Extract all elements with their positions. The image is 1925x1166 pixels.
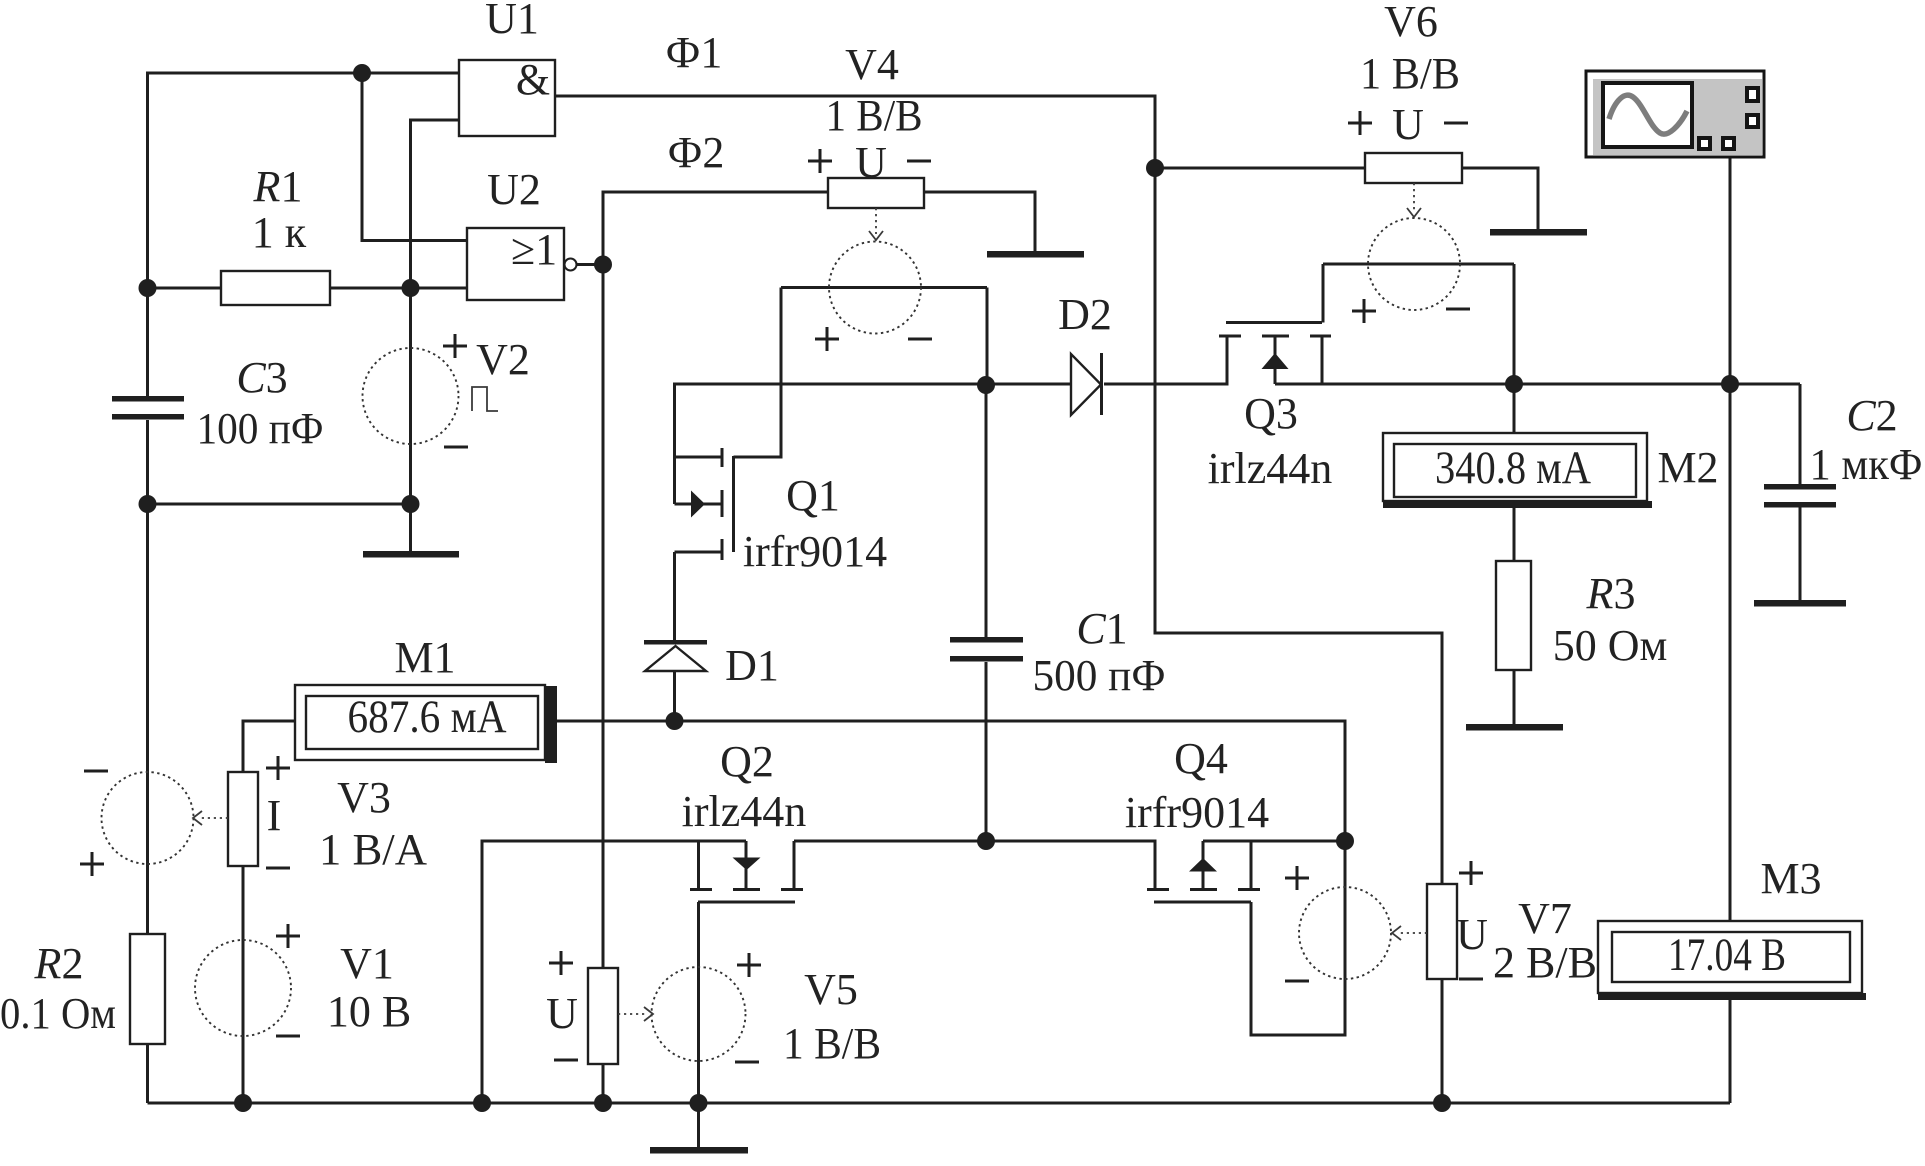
V4 voltage sense box bbox=[828, 178, 924, 240]
oscilloscope bbox=[1586, 71, 1764, 157]
ground right of V6 bbox=[1490, 229, 1587, 236]
wire R3 to ground bbox=[1513, 670, 1516, 725]
svg-text:17.04 В: 17.04 В bbox=[1668, 929, 1786, 981]
wire U2 output node up to Ф2 wire into V4 box bbox=[603, 192, 828, 265]
wire bottom ground rail bbox=[148, 1102, 1731, 1105]
svg-text:R3: R3 bbox=[1586, 569, 1636, 618]
node Q4 right / V7 top bbox=[1336, 832, 1354, 850]
node left rail / R1 bbox=[139, 279, 157, 297]
ground under R3 bbox=[1466, 724, 1563, 731]
node at U1 input 1 branch bbox=[353, 64, 371, 82]
svg-text:R2: R2 bbox=[34, 939, 84, 988]
svg-text:М2: М2 bbox=[1657, 443, 1718, 492]
transistor Q1 (irfr9014 PMOS) bbox=[675, 448, 734, 560]
wire V6 left lead from Ф1 node bbox=[1155, 167, 1365, 170]
wire Q4 body/drain side to V7 node bbox=[1203, 840, 1345, 843]
wire U1 output Ф1 net across top bbox=[555, 96, 1442, 884]
wire C1 top lead bbox=[985, 385, 988, 637]
node ground rail / V7 box column bbox=[1433, 1094, 1451, 1112]
node ground rail / Q2 rail riser bbox=[473, 1094, 491, 1112]
svg-text:I: I bbox=[267, 791, 282, 840]
node ground rail / U2 output vertical bbox=[594, 1094, 612, 1112]
wire Q2 gate through V5 source to ground rail bbox=[697, 902, 700, 1103]
wire output node down to M2 bbox=[1513, 384, 1516, 433]
wire oscilloscope probe down to output wire bbox=[1729, 157, 1732, 384]
svg-text:1 В/А: 1 В/А bbox=[319, 825, 427, 874]
wire left rail C3 to V3 to R2 bbox=[146, 420, 149, 934]
wire V7 sense box bottom to ground rail bbox=[1441, 979, 1444, 1103]
svg-text:irlz44n: irlz44n bbox=[1208, 444, 1333, 493]
svg-text:M1: M1 bbox=[394, 633, 455, 682]
svg-text:U: U bbox=[546, 989, 578, 1038]
logic gate U1 (AND) bbox=[459, 55, 555, 136]
ammeter M2 bbox=[1383, 433, 1652, 508]
svg-text:Ф2: Ф2 bbox=[668, 128, 725, 177]
svg-text:U: U bbox=[1392, 100, 1424, 149]
svg-text:687.6 мА: 687.6 мА bbox=[348, 691, 507, 743]
resistor R2 bbox=[130, 934, 165, 1044]
source V1 (10 V battery) bbox=[195, 924, 300, 1036]
diode D2 bbox=[1071, 353, 1102, 415]
V3 current sense box bbox=[193, 756, 290, 868]
wire V6 right terminal down to output wire bbox=[1513, 264, 1516, 384]
plus/minus of V5 circle bbox=[735, 953, 761, 1062]
svg-text:irfr9014: irfr9014 bbox=[743, 527, 887, 576]
wire top-left rail to U1 input 1 bbox=[148, 73, 460, 396]
node output / M2 top bbox=[1505, 375, 1523, 393]
node output / oscilloscope / M3 bbox=[1721, 375, 1739, 393]
svg-text:500 пФ: 500 пФ bbox=[1033, 651, 1166, 700]
wire R1 right lead to U2 input 2 bbox=[330, 287, 467, 290]
svg-text:M3: M3 bbox=[1760, 854, 1821, 903]
wire V7 source chord to Q4 gate L bbox=[1251, 841, 1345, 1035]
wire C2 top lead bbox=[1799, 384, 1802, 484]
source V5 (voltage-controlled source in Q2 gate) bbox=[652, 967, 746, 1061]
svg-text:2 В/В: 2 В/В bbox=[1493, 938, 1597, 987]
V6 voltage sense box bbox=[1365, 153, 1462, 217]
svg-text:V3: V3 bbox=[337, 773, 391, 822]
svg-text:Ф1: Ф1 bbox=[666, 28, 723, 77]
svg-text:Q2: Q2 bbox=[720, 737, 774, 786]
node D1 / M1 wire bbox=[666, 712, 684, 730]
svg-text:C3: C3 bbox=[236, 353, 287, 402]
wire V6 left terminal down to Q3 gate bbox=[1322, 264, 1325, 323]
wire U2 output bubble to node bbox=[577, 263, 603, 266]
svg-text:1 В/В: 1 В/В bbox=[826, 91, 923, 140]
wire output node down to M3 bbox=[1729, 384, 1732, 921]
svg-text:C1: C1 bbox=[1076, 604, 1127, 653]
source V3 (current-controlled voltage source circle) bbox=[80, 771, 194, 876]
node C3 bottom left bbox=[139, 495, 157, 513]
wire Q1 source to D1 anode top bbox=[673, 552, 676, 640]
svg-text:50 Ом: 50 Ом bbox=[1553, 621, 1668, 670]
wire M1 left lead to V3 sense box bbox=[243, 721, 295, 772]
node ground rail / V5 ground bbox=[690, 1094, 708, 1112]
svg-text:U: U bbox=[1456, 910, 1488, 959]
svg-text:U2: U2 bbox=[487, 165, 541, 214]
ground below rail at V5 bbox=[650, 1147, 748, 1154]
node V2 minus bbox=[402, 495, 420, 513]
transistor Q3 (irlz44n NMOS) bbox=[1219, 323, 1331, 385]
svg-text:R1: R1 bbox=[253, 162, 303, 211]
svg-text:V6: V6 bbox=[1384, 0, 1438, 46]
ground right of V4 bbox=[987, 251, 1084, 258]
svg-text:1 В/В: 1 В/В bbox=[783, 1019, 881, 1068]
wire Q1 drain rail top bbox=[675, 384, 1072, 504]
wire V6 source chord bbox=[1323, 263, 1514, 266]
transistor Q2 (irlz44n NMOS) bbox=[690, 841, 803, 902]
svg-text:C2: C2 bbox=[1846, 391, 1897, 440]
wire left rail R2 bottom to ground rail corner bbox=[146, 1044, 149, 1103]
wire V4 box right lead to ground bbox=[924, 192, 1035, 252]
logic gate U2 (NOR) with output bubble bbox=[467, 225, 577, 300]
svg-text:1 В/В: 1 В/В bbox=[1360, 49, 1460, 98]
svg-text:irlz44n: irlz44n bbox=[682, 787, 807, 836]
ammeter M1 bbox=[295, 685, 557, 763]
voltmeter M3 bbox=[1598, 921, 1866, 1000]
wire V2 branch through source circle to ground bbox=[409, 288, 412, 552]
V7 voltage sense box bbox=[1392, 861, 1483, 979]
svg-text:Q1: Q1 bbox=[786, 471, 840, 520]
svg-text:Q4: Q4 bbox=[1174, 734, 1228, 783]
svg-text:340.8 мА: 340.8 мА bbox=[1435, 442, 1591, 494]
node C1 bottom / Q2-Q4 wire bbox=[977, 832, 995, 850]
wire V4 source chord bbox=[781, 286, 987, 289]
wire V4 left terminal down to Q1 gate lead bbox=[734, 288, 782, 458]
wire Q3 body/drain side to output node bbox=[1275, 383, 1800, 386]
svg-text:U1: U1 bbox=[485, 0, 539, 43]
wire C3 bottom to V2 bottom node bbox=[148, 503, 411, 506]
ground under V2 bbox=[363, 551, 459, 558]
diode D1 bbox=[644, 640, 707, 671]
svg-text:1 к: 1 к bbox=[252, 208, 307, 257]
resistor R1 bbox=[221, 271, 330, 305]
source V6 (voltage-controlled source) bbox=[1352, 218, 1470, 323]
resistor R3 bbox=[1496, 561, 1531, 670]
node R1 / U1 in2 / V2 bbox=[402, 279, 420, 297]
svg-text:irfr9014: irfr9014 bbox=[1125, 788, 1269, 837]
svg-text:U: U bbox=[855, 138, 887, 187]
wire M1 right lead across to Q4/V7 node bbox=[557, 721, 1345, 841]
wire M3 bottom to ground rail bbox=[1729, 1000, 1732, 1103]
svg-text:&: & bbox=[516, 55, 550, 104]
node Ф1 / V6 left bbox=[1146, 159, 1164, 177]
svg-text:10 В: 10 В bbox=[327, 987, 411, 1036]
svg-text:D2: D2 bbox=[1058, 290, 1112, 339]
node U2 output bbox=[594, 256, 612, 274]
capacitor C1 bbox=[950, 637, 1023, 662]
svg-text:0.1 Ом: 0.1 Ом bbox=[0, 989, 116, 1038]
wire ground stub below rail at V5 bbox=[697, 1103, 700, 1147]
wire C1 bottom lead bbox=[985, 662, 988, 841]
svg-text:1 мкФ: 1 мкФ bbox=[1810, 440, 1923, 489]
svg-text:V4: V4 bbox=[845, 40, 899, 89]
ground under C2 bbox=[1754, 600, 1846, 607]
wire node A drop to U2 input 1 bbox=[362, 73, 467, 241]
svg-text:Q3: Q3 bbox=[1244, 389, 1298, 438]
wire M2 to R3 bbox=[1513, 508, 1516, 561]
transistor Q4 (irfr9014 PMOS) bbox=[1147, 841, 1260, 902]
wire Q2 source-side rail bbox=[482, 841, 746, 1103]
wire D2 cathode to Q3 source stub bbox=[1104, 337, 1227, 384]
wire Q2 drain side to Q4 source stub bbox=[794, 841, 1155, 888]
node ground rail / V1 bbox=[234, 1094, 252, 1112]
wire V6 box right lead to ground bbox=[1462, 168, 1538, 230]
wire U1 input 2 to node B bbox=[411, 120, 460, 288]
wire R1 left lead bbox=[148, 287, 222, 290]
wire U2 output node down long vertical to ground rail bbox=[602, 265, 605, 1104]
source V4 (voltage-controlled source) bbox=[815, 242, 932, 352]
svg-text:V2: V2 bbox=[476, 335, 530, 384]
svg-text:≥1: ≥1 bbox=[511, 225, 557, 274]
plus U minus of V6 box bbox=[1348, 111, 1468, 135]
wire V3 sense box to V1 to ground rail bbox=[242, 866, 245, 1103]
source V7 (voltage-controlled source in Q4 gate) bbox=[1285, 866, 1391, 981]
V5 voltage sense box bbox=[549, 951, 653, 1064]
wire C2 bottom lead to ground bbox=[1799, 507, 1802, 601]
svg-text:V7: V7 bbox=[1518, 894, 1572, 943]
svg-text:100 пФ: 100 пФ bbox=[197, 404, 324, 453]
capacitor C3 bbox=[112, 396, 184, 420]
wire D1 bottom to M1 output node bbox=[673, 671, 676, 721]
svg-text:V1: V1 bbox=[340, 939, 394, 988]
plus U minus of V4 box bbox=[808, 149, 931, 173]
wire V4 right terminal down to node D2-left bbox=[986, 288, 989, 386]
capacitor C2 bbox=[1764, 484, 1836, 508]
svg-text:V5: V5 bbox=[804, 965, 858, 1014]
source V2 (pulse voltage source) bbox=[363, 334, 499, 447]
node V4 minus / C1 / D2 anode bbox=[977, 376, 995, 394]
svg-text:D1: D1 bbox=[725, 641, 779, 690]
